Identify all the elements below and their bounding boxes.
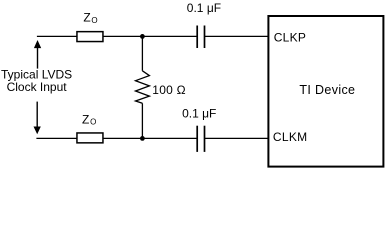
capacitor C2 (0.1 uF, bottom)	[197, 126, 204, 152]
wire bottom cap to TI Device	[205, 137, 268, 139]
TI Device box U1	[268, 16, 383, 167]
wire vertical from resistor R3 to bottom junction	[141, 103, 143, 138]
wire vertical from top junction to resistor R3	[141, 36, 143, 70]
node junction dot bottom	[140, 136, 145, 141]
svg-text:CLKP: CLKP	[274, 31, 307, 45]
annotation text Typical LVDS Clock Input	[1, 68, 72, 95]
wire top row left (CLKP net)	[37, 35, 197, 37]
capacitor C1 (0.1 uF, top)	[197, 26, 204, 49]
svg-text:100 Ω: 100 Ω	[152, 83, 186, 97]
label Zo (bottom)	[82, 112, 96, 126]
svg-text:Clock Input: Clock Input	[7, 80, 68, 94]
wire bottom row left (CLKM net)	[36, 137, 197, 139]
svg-text:O: O	[90, 118, 96, 127]
arrow down (LVDS input annotation, bottom)	[34, 102, 41, 135]
svg-text:Z: Z	[82, 112, 89, 126]
svg-text:Z: Z	[83, 11, 90, 25]
svg-text:O: O	[91, 16, 97, 25]
resistor R2 (Zo, bottom series)	[77, 133, 103, 143]
resistor R3 (100 ohm termination, zigzag)	[136, 71, 150, 104]
node junction dot top	[140, 34, 145, 39]
wire top cap to TI Device	[205, 35, 268, 37]
label Zo (top)	[83, 11, 97, 25]
svg-text:CLKM: CLKM	[273, 130, 308, 144]
svg-text:0.1 μF: 0.1 μF	[187, 1, 221, 15]
arrow up (LVDS input annotation, top)	[34, 40, 41, 69]
svg-text:0.1 μF: 0.1 μF	[182, 106, 216, 120]
svg-text:TI Device: TI Device	[299, 83, 355, 97]
resistor R1 (Zo, top series)	[77, 32, 103, 42]
